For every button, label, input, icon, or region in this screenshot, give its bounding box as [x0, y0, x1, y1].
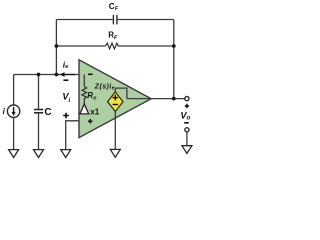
wire: capacitor C branch upper: [38, 75, 40, 110]
ground: under Vo minus terminal: [182, 146, 192, 154]
wire: current source to ground: [13, 117, 15, 149]
svg-text:Z(s)ie: Z(s)ie: [94, 83, 115, 91]
wire: capacitor C branch lower to ground: [38, 113, 40, 150]
node dot: output node: [172, 97, 176, 101]
wire: dependent source bottom to ground: [114, 112, 116, 150]
wire: top horizontal right of CF: [118, 19, 174, 21]
wire: RF row left segment: [56, 45, 105, 47]
wire: minus terminal to ground: [186, 132, 188, 146]
op-amp triangle: [79, 60, 151, 138]
node dot: input node: [55, 73, 59, 77]
terminal: output minus circle: [185, 128, 189, 132]
node: Vj plus polarity: [63, 113, 69, 119]
node: Vo minus polarity: [184, 122, 189, 124]
resistor RF: [106, 43, 120, 49]
wire: noninverting input to ground L: [66, 114, 85, 150]
node dot: RF right: [172, 44, 176, 48]
node: Vo plus polarity: [185, 104, 189, 108]
ground: under noninverting input: [61, 150, 71, 158]
dependent source Z(s)ie diamond: [108, 92, 123, 112]
wire: top horizontal left of CF: [56, 19, 112, 21]
terminal: output plus circle: [185, 97, 189, 101]
buffer x1: [80, 104, 89, 114]
wire: Ro to buffer: [83, 100, 85, 104]
wire: right feedback vertical: [173, 20, 175, 99]
capacitor C: [34, 110, 43, 113]
svg-text:C: C: [44, 107, 51, 118]
node: noninverting input plus mark: [88, 119, 93, 124]
ground: under current source: [9, 150, 19, 158]
wire: output wire: [127, 98, 185, 100]
arrow ie on input wire: [59, 72, 64, 77]
resistor Ro: [82, 87, 87, 101]
current source i: [7, 105, 19, 117]
wire: RF row right segment: [120, 45, 174, 47]
capacitor CF: [113, 15, 117, 25]
node dot: capacitor tap: [37, 73, 41, 77]
wire: input node to feedback top-left vertical: [55, 20, 57, 75]
ground: under capacitor C: [34, 150, 44, 158]
node dot: RF left: [55, 44, 59, 48]
wire: left branch down to current source: [13, 75, 15, 106]
node: inverting input minus mark: [88, 73, 93, 75]
wire: dependent source top loop to output: [115, 88, 127, 99]
svg-text:x1: x1: [90, 107, 100, 116]
wire: main input wire: [14, 74, 87, 76]
ground: under dependent source: [110, 149, 120, 157]
node: Vj minus polarity: [63, 79, 68, 81]
wire: inverting input to Ro: [83, 75, 85, 87]
